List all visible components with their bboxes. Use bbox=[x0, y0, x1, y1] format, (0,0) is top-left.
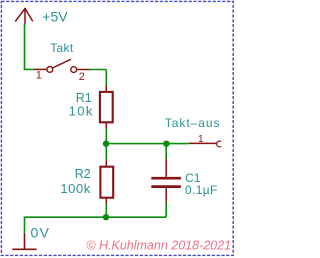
mid rail wire bbox=[106, 143, 188, 145]
svg-text:1: 1 bbox=[198, 133, 204, 145]
wire C1 to bottom rail bbox=[165, 203, 167, 218]
wire switch to R1 corner bbox=[90, 69, 107, 71]
ground symbol 0V bbox=[12, 234, 36, 250]
svg-text:© H.Kuhlmann 2018-2021: © H.Kuhlmann 2018-2021 bbox=[86, 239, 231, 253]
svg-text:100k: 100k bbox=[60, 181, 90, 196]
wire junction to R2 bbox=[105, 144, 107, 161]
bottom rail wire bbox=[24, 216, 167, 218]
junction at C1 branch bbox=[163, 141, 169, 147]
wire from +5V down bbox=[24, 24, 26, 69]
svg-text:Takt–aus: Takt–aus bbox=[165, 116, 221, 130]
wire R1 to mid rail bbox=[105, 128, 107, 143]
wire down to R1 bbox=[105, 70, 107, 86]
svg-text:2: 2 bbox=[79, 71, 85, 83]
wire down to 0V bbox=[24, 217, 26, 233]
power symbol +5V arrow bbox=[16, 9, 33, 25]
resistor R1 bbox=[100, 86, 113, 129]
junction below R1 bbox=[103, 141, 109, 147]
svg-text:R2: R2 bbox=[75, 167, 91, 181]
wire junction down to C1 bbox=[165, 144, 167, 159]
svg-text:+5V: +5V bbox=[42, 9, 68, 25]
svg-text:1: 1 bbox=[36, 70, 42, 82]
junction below R2 bbox=[103, 214, 109, 220]
svg-text:0V: 0V bbox=[31, 225, 51, 241]
wire R2 to bottom rail bbox=[105, 204, 107, 217]
svg-text:0.1µF: 0.1µF bbox=[185, 183, 218, 197]
wire corner to switch bbox=[24, 68, 34, 70]
switch SW Takt bbox=[34, 59, 90, 72]
resistor R2 bbox=[100, 160, 113, 204]
capacitor C1 bbox=[151, 159, 181, 203]
connector pin Takt-aus bbox=[189, 141, 221, 147]
svg-text:10k: 10k bbox=[69, 104, 94, 119]
svg-text:Takt: Takt bbox=[50, 41, 74, 55]
